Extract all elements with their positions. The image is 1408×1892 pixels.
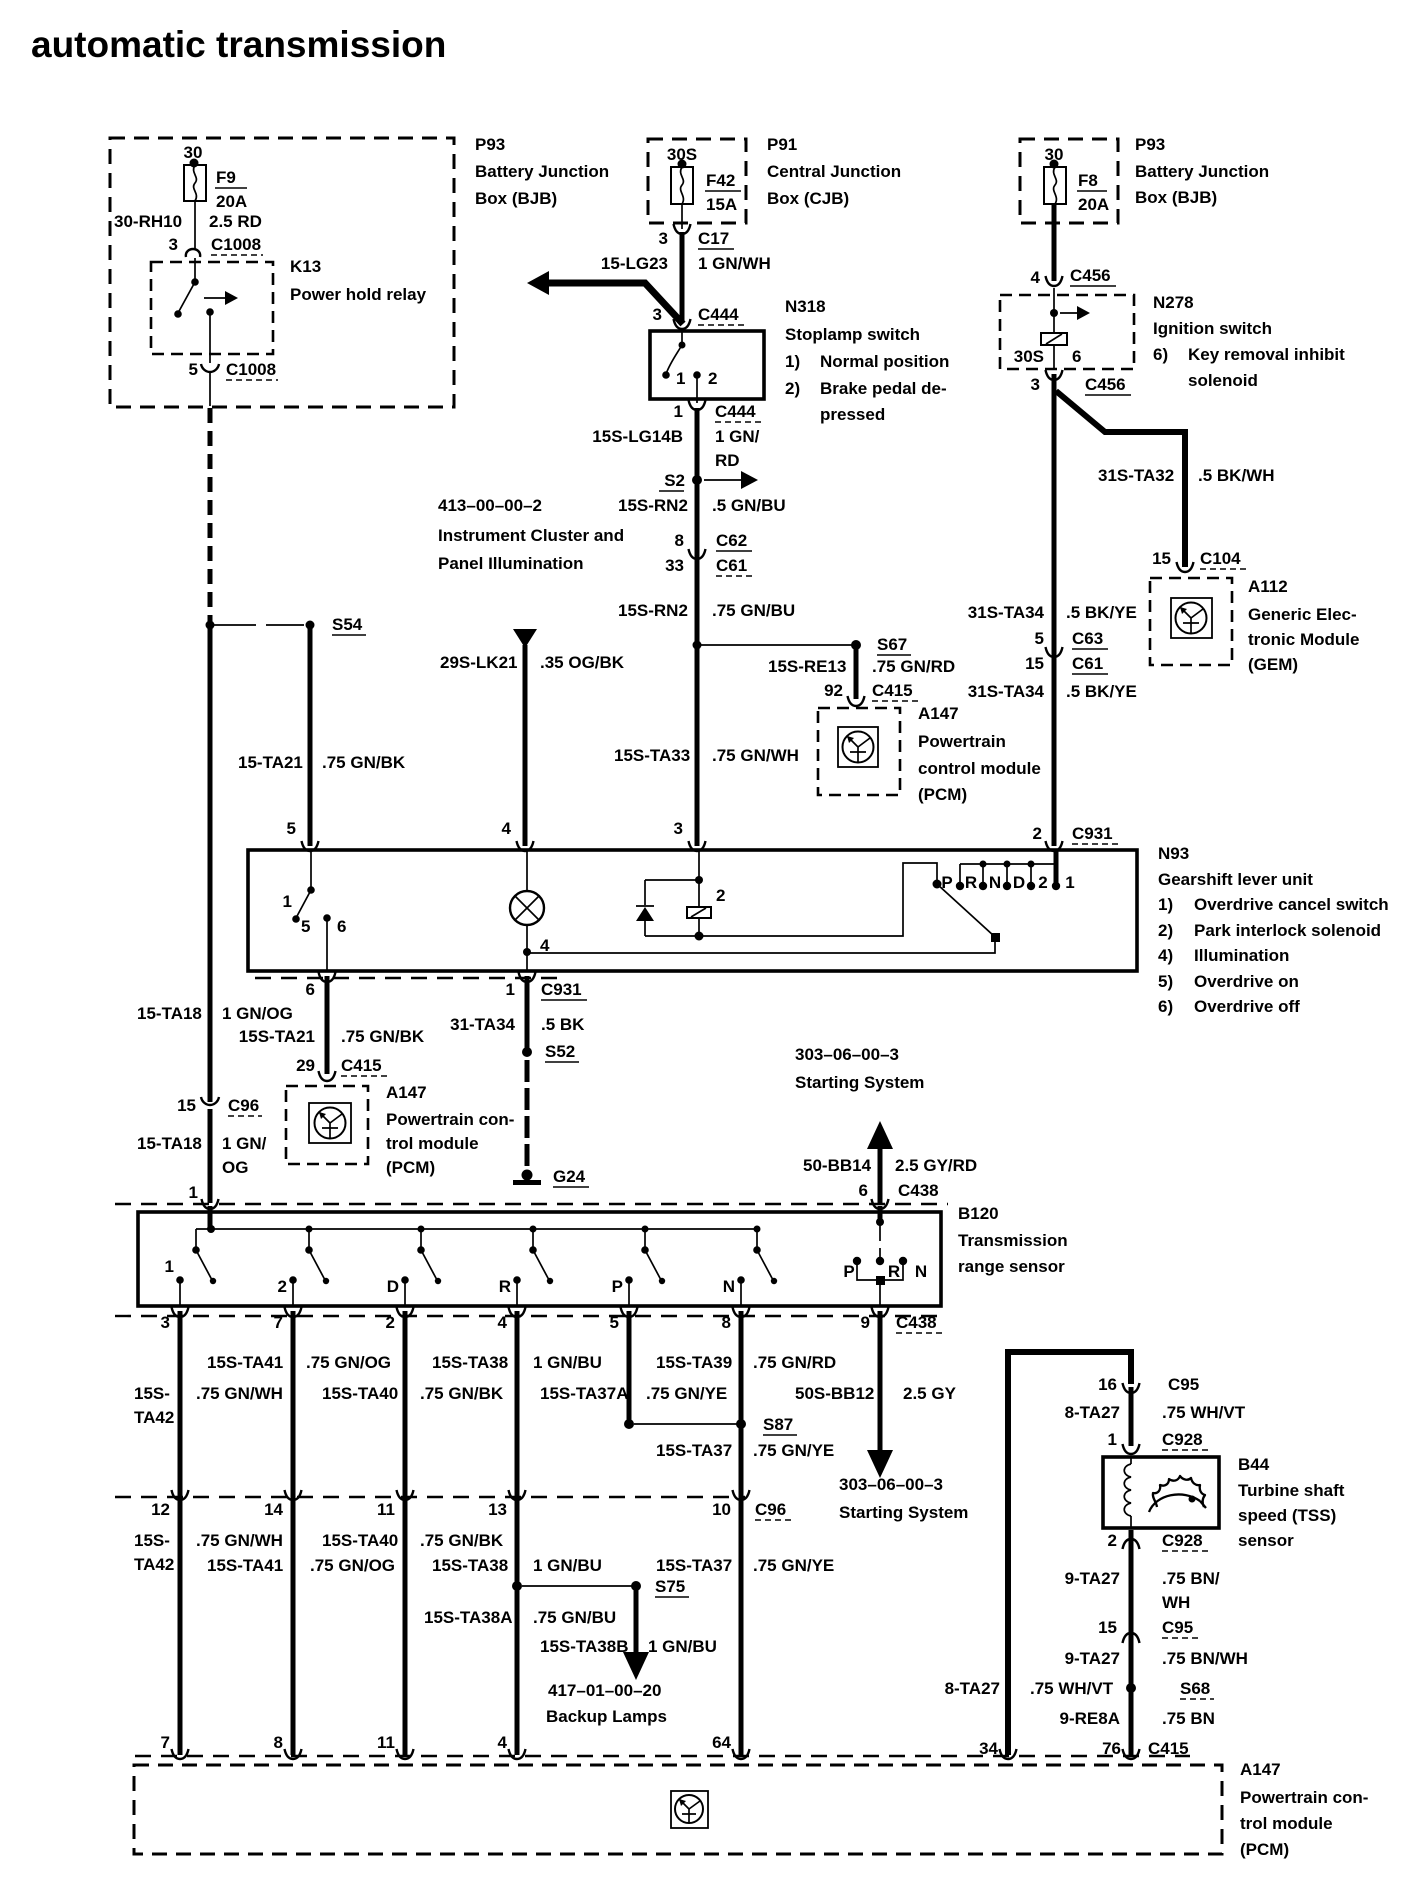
svg-text:15S-RN2: 15S-RN2 bbox=[618, 496, 688, 515]
battery junction box P93 (right, dashed) bbox=[1020, 139, 1118, 223]
svg-text:1 GN/: 1 GN/ bbox=[222, 1134, 267, 1153]
svg-text:S87: S87 bbox=[763, 1415, 793, 1434]
svg-text:F9: F9 bbox=[216, 168, 236, 187]
svg-text:D: D bbox=[387, 1277, 399, 1296]
svg-text:5: 5 bbox=[287, 819, 296, 838]
svg-text:30S: 30S bbox=[1014, 347, 1044, 366]
svg-text:413–00–00–2: 413–00–00–2 bbox=[438, 496, 542, 515]
B120 pin1 wire into bus bbox=[208, 1206, 213, 1229]
svg-text:C61: C61 bbox=[716, 556, 747, 575]
svg-text:automatic transmission: automatic transmission bbox=[31, 24, 446, 65]
wire solenoid to selector pivot bbox=[699, 863, 937, 936]
svg-text:50-BB14: 50-BB14 bbox=[803, 1156, 872, 1175]
svg-text:K13: K13 bbox=[290, 257, 321, 276]
wire fuse F9 to C1008 bbox=[194, 201, 196, 250]
relay K13 actuate arrow bbox=[204, 297, 228, 299]
relay K13 box (dashed) bbox=[151, 262, 273, 354]
svg-text:8: 8 bbox=[722, 1313, 731, 1332]
svg-text:Overdrive cancel switch: Overdrive cancel switch bbox=[1194, 895, 1389, 914]
svg-text:OG: OG bbox=[222, 1158, 248, 1177]
svg-text:F8: F8 bbox=[1078, 171, 1098, 190]
svg-text:15S-TA21: 15S-TA21 bbox=[239, 1027, 315, 1046]
svg-text:G24: G24 bbox=[553, 1167, 586, 1186]
svg-text:N: N bbox=[915, 1262, 927, 1281]
PCM A147 box (bottom, dashed) bbox=[134, 1765, 1222, 1854]
svg-text:417–01–00–20: 417–01–00–20 bbox=[548, 1681, 661, 1700]
bottom connector row C415 bbox=[135, 1755, 1190, 1757]
svg-text:S2: S2 bbox=[664, 471, 685, 490]
svg-text:15S-TA37A: 15S-TA37A bbox=[540, 1384, 629, 1403]
svg-text:16: 16 bbox=[1098, 1375, 1117, 1394]
svg-text:Generic Elec-: Generic Elec- bbox=[1248, 605, 1357, 624]
svg-text:.75 GN/BU: .75 GN/BU bbox=[712, 601, 795, 620]
svg-text:Powertrain con-: Powertrain con- bbox=[1240, 1788, 1368, 1807]
svg-text:speed (TSS): speed (TSS) bbox=[1238, 1506, 1336, 1525]
svg-text:8: 8 bbox=[274, 1733, 283, 1752]
svg-text:3: 3 bbox=[169, 235, 178, 254]
svg-text:Stoplamp switch: Stoplamp switch bbox=[785, 325, 920, 344]
svg-text:303–06–00–3: 303–06–00–3 bbox=[795, 1045, 899, 1064]
svg-text:.75 GN/WH: .75 GN/WH bbox=[196, 1531, 283, 1550]
svg-text:.75 GN/RD: .75 GN/RD bbox=[872, 657, 955, 676]
wire 15-TA21 (S54 to N93 pin5) bbox=[308, 627, 313, 846]
svg-text:15S-TA39: 15S-TA39 bbox=[656, 1353, 732, 1372]
svg-text:.75 GN/YE: .75 GN/YE bbox=[753, 1441, 834, 1460]
wire 15-TA18 solid to C96 bbox=[208, 625, 213, 1102]
svg-text:1 GN/BU: 1 GN/BU bbox=[533, 1556, 602, 1575]
dashed wire S52 to ground bbox=[525, 1060, 530, 1170]
svg-text:Box (CJB): Box (CJB) bbox=[767, 189, 849, 208]
fuse F8 20A bbox=[1044, 167, 1066, 204]
wire 50S-BB12 (pin 9) bbox=[872, 1307, 889, 1317]
selector contact bus P R N D 2 1 bbox=[960, 863, 1056, 865]
svg-text:C928: C928 bbox=[1162, 1531, 1203, 1550]
wire 15S-TA37A (pin 5) bbox=[621, 1307, 638, 1317]
svg-text:C1008: C1008 bbox=[211, 235, 261, 254]
wire S75 to backup lamps arrow bbox=[634, 1586, 639, 1652]
svg-text:Starting System: Starting System bbox=[795, 1073, 924, 1092]
svg-text:31S-TA32: 31S-TA32 bbox=[1098, 466, 1174, 485]
node S68 bbox=[1126, 1683, 1136, 1693]
svg-text:15S-TA41: 15S-TA41 bbox=[207, 1556, 283, 1575]
svg-text:6): 6) bbox=[1158, 997, 1173, 1016]
svg-text:sensor: sensor bbox=[1238, 1531, 1294, 1550]
svg-text:Box (BJB): Box (BJB) bbox=[475, 189, 557, 208]
node S52 bbox=[522, 1047, 532, 1057]
svg-text:C95: C95 bbox=[1162, 1618, 1193, 1637]
svg-text:N: N bbox=[723, 1277, 735, 1296]
svg-text:15S-RE13: 15S-RE13 bbox=[768, 657, 846, 676]
wire S67 to C415 bbox=[854, 645, 859, 699]
svg-text:Park interlock solenoid: Park interlock solenoid bbox=[1194, 921, 1381, 940]
svg-text:Battery Junction: Battery Junction bbox=[1135, 162, 1269, 181]
svg-text:.5 BK: .5 BK bbox=[541, 1015, 585, 1034]
ignition switch contact and arrow bbox=[1053, 288, 1055, 333]
svg-text:.5 BK/WH: .5 BK/WH bbox=[1198, 466, 1275, 485]
svg-text:7: 7 bbox=[161, 1733, 170, 1752]
svg-text:.75 GN/BK: .75 GN/BK bbox=[341, 1027, 425, 1046]
svg-text:C96: C96 bbox=[755, 1500, 786, 1519]
svg-text:C62: C62 bbox=[716, 531, 747, 550]
wire lamp to selector arm (pin 4 line) bbox=[527, 937, 995, 953]
svg-text:B120: B120 bbox=[958, 1204, 999, 1223]
connector line C931 below N93 bbox=[255, 977, 560, 979]
key inhibit solenoid bbox=[1041, 333, 1067, 345]
svg-text:303–06–00–3: 303–06–00–3 bbox=[839, 1475, 943, 1494]
svg-text:15-LG23: 15-LG23 bbox=[601, 254, 668, 273]
svg-text:50S-BB12: 50S-BB12 bbox=[795, 1384, 874, 1403]
svg-text:5: 5 bbox=[301, 917, 310, 936]
connector pin1 B120 bbox=[202, 1199, 219, 1209]
svg-text:3: 3 bbox=[161, 1313, 170, 1332]
svg-text:N318: N318 bbox=[785, 297, 826, 316]
svg-text:control module: control module bbox=[918, 759, 1041, 778]
svg-text:6: 6 bbox=[306, 980, 315, 999]
svg-text:34: 34 bbox=[979, 1739, 998, 1758]
starter inhibitor contacts P/R bbox=[878, 1206, 883, 1222]
svg-text:C438: C438 bbox=[896, 1313, 937, 1332]
svg-text:P: P bbox=[843, 1262, 854, 1281]
svg-text:Power hold relay: Power hold relay bbox=[290, 285, 427, 304]
svg-text:4: 4 bbox=[502, 819, 512, 838]
svg-text:1: 1 bbox=[1065, 873, 1074, 892]
svg-text:R: R bbox=[965, 873, 977, 892]
range switch P bbox=[642, 1226, 649, 1233]
svg-text:6: 6 bbox=[337, 917, 346, 936]
svg-text:31S-TA34: 31S-TA34 bbox=[968, 682, 1045, 701]
svg-text:1 GN/: 1 GN/ bbox=[715, 427, 760, 446]
svg-text:C104: C104 bbox=[1200, 549, 1241, 568]
overdrive cancel switch (1) bbox=[310, 850, 312, 890]
svg-text:64: 64 bbox=[712, 1733, 731, 1752]
wire C444 to N93 pin3 bbox=[695, 408, 700, 846]
svg-text:.75 GN/BU: .75 GN/BU bbox=[533, 1608, 616, 1627]
svg-text:Backup Lamps: Backup Lamps bbox=[546, 1707, 667, 1726]
svg-text:S54: S54 bbox=[332, 615, 363, 634]
svg-text:TA42: TA42 bbox=[134, 1555, 174, 1574]
svg-text:C456: C456 bbox=[1085, 375, 1126, 394]
wire 15S-TA40 (pin 2) bbox=[397, 1307, 414, 1317]
svg-text:3: 3 bbox=[659, 229, 668, 248]
svg-text:.35 OG/BK: .35 OG/BK bbox=[540, 653, 625, 672]
wire to C928 bbox=[1129, 1387, 1134, 1446]
svg-text:15S-TA38A: 15S-TA38A bbox=[424, 1608, 513, 1627]
connector boundary line below B120 bbox=[115, 1315, 945, 1317]
svg-text:Turbine shaft: Turbine shaft bbox=[1238, 1481, 1345, 1500]
GEM A112 box (dashed) bbox=[1150, 578, 1232, 665]
svg-text:4: 4 bbox=[498, 1313, 508, 1332]
svg-text:.75 GN/WH: .75 GN/WH bbox=[712, 746, 799, 765]
svg-text:Key removal inhibit: Key removal inhibit bbox=[1188, 345, 1345, 364]
svg-text:F42: F42 bbox=[706, 171, 735, 190]
node S54 junction bbox=[206, 621, 215, 630]
wire F42 to C17 bbox=[681, 204, 683, 229]
svg-text:15S-TA38: 15S-TA38 bbox=[432, 1353, 508, 1372]
node S75 bbox=[512, 1581, 522, 1591]
connector row C96 bbox=[115, 1496, 745, 1498]
svg-text:C1008: C1008 bbox=[226, 360, 276, 379]
svg-text:30-RH10: 30-RH10 bbox=[114, 212, 182, 231]
svg-text:Starting System: Starting System bbox=[839, 1503, 968, 1522]
svg-text:15S-TA37: 15S-TA37 bbox=[656, 1556, 732, 1575]
svg-text:8-TA27: 8-TA27 bbox=[1065, 1403, 1120, 1422]
fuse F42 15A bbox=[671, 167, 693, 204]
svg-text:.75 GN/OG: .75 GN/OG bbox=[310, 1556, 395, 1575]
svg-text:.75 GN/YE: .75 GN/YE bbox=[753, 1556, 834, 1575]
transmission range sensor B120 box bbox=[138, 1212, 941, 1306]
svg-text:.75 WH/VT: .75 WH/VT bbox=[1030, 1679, 1114, 1698]
svg-text:Brake pedal de-: Brake pedal de- bbox=[820, 379, 947, 398]
stoplamp switch N318 box bbox=[650, 331, 764, 399]
svg-text:R: R bbox=[888, 1262, 900, 1281]
ignition switch N278 box (dashed) bbox=[1000, 295, 1134, 369]
wire pin6 to C415 bbox=[325, 976, 330, 1074]
svg-text:(PCM): (PCM) bbox=[918, 785, 967, 804]
PCM A147 box (mid right, dashed) bbox=[818, 708, 900, 795]
svg-text:D: D bbox=[1013, 873, 1025, 892]
arrow branch to left (15-LG23) bbox=[545, 283, 683, 324]
svg-text:15A: 15A bbox=[706, 195, 737, 214]
svg-text:.75 BN: .75 BN bbox=[1162, 1709, 1215, 1728]
svg-text:15-TA21: 15-TA21 bbox=[238, 753, 303, 772]
svg-text:15S-TA40: 15S-TA40 bbox=[322, 1384, 398, 1403]
svg-text:15S-: 15S- bbox=[134, 1531, 170, 1550]
svg-text:8: 8 bbox=[675, 531, 684, 550]
svg-text:15: 15 bbox=[1025, 654, 1044, 673]
svg-text:C456: C456 bbox=[1070, 266, 1111, 285]
svg-text:A112: A112 bbox=[1248, 577, 1288, 596]
fuse F9 20A bbox=[184, 165, 206, 201]
wire 15S-TA41 (pin 7) bbox=[285, 1307, 302, 1317]
svg-text:S75: S75 bbox=[655, 1577, 685, 1596]
svg-text:N93: N93 bbox=[1158, 844, 1189, 863]
wire F8 to C456 bbox=[1052, 204, 1057, 281]
TSS coil bbox=[1124, 1464, 1131, 1516]
svg-text:6: 6 bbox=[1072, 347, 1081, 366]
svg-text:C415: C415 bbox=[872, 681, 913, 700]
wire pin5 to box edge bbox=[209, 373, 211, 406]
svg-text:A147: A147 bbox=[386, 1083, 427, 1102]
range switch R bbox=[530, 1226, 537, 1233]
svg-text:1: 1 bbox=[165, 1257, 174, 1276]
svg-text:P: P bbox=[941, 873, 952, 892]
svg-text:C415: C415 bbox=[341, 1056, 382, 1075]
svg-text:R: R bbox=[499, 1277, 511, 1296]
svg-text:2: 2 bbox=[278, 1277, 287, 1296]
selector arm bbox=[933, 880, 942, 889]
svg-text:.75 GN/BK: .75 GN/BK bbox=[322, 753, 406, 772]
svg-text:Powertrain: Powertrain bbox=[918, 732, 1006, 751]
svg-text:15S-TA38: 15S-TA38 bbox=[432, 1556, 508, 1575]
B120 internal bus bbox=[196, 1228, 757, 1230]
illumination lamp (4) bbox=[526, 850, 528, 891]
svg-text:2): 2) bbox=[785, 379, 800, 398]
svg-text:11: 11 bbox=[377, 1733, 395, 1752]
svg-text:31S-TA34: 31S-TA34 bbox=[968, 603, 1045, 622]
pin 2 feed into selector bbox=[1054, 850, 1059, 884]
svg-text:Central Junction: Central Junction bbox=[767, 162, 901, 181]
svg-text:1 GN/OG: 1 GN/OG bbox=[222, 1004, 293, 1023]
PCM A147 box (mid left, dashed) bbox=[286, 1086, 368, 1164]
relay K13 contact to pin 5 bbox=[206, 308, 214, 316]
wire 9-TA27 down bbox=[1129, 1530, 1134, 1755]
svg-text:92: 92 bbox=[824, 681, 843, 700]
svg-text:1: 1 bbox=[283, 892, 292, 911]
svg-text:2): 2) bbox=[1158, 921, 1173, 940]
svg-text:B44: B44 bbox=[1238, 1455, 1270, 1474]
svg-text:4): 4) bbox=[1158, 946, 1173, 965]
range switch 2 bbox=[306, 1226, 313, 1233]
arrow up 50-BB14 bbox=[878, 1146, 883, 1203]
stoplamp switch contacts bbox=[681, 331, 683, 345]
svg-text:.75 GN/OG: .75 GN/OG bbox=[306, 1353, 391, 1372]
svg-text:C96: C96 bbox=[228, 1096, 259, 1115]
svg-text:14: 14 bbox=[264, 1500, 283, 1519]
battery junction box P93 (left, dashed) bbox=[110, 138, 454, 407]
wire 8-TA27 loop (hat) bbox=[1008, 1352, 1131, 1755]
svg-text:1: 1 bbox=[1108, 1430, 1117, 1449]
svg-text:15S-TA40: 15S-TA40 bbox=[322, 1531, 398, 1550]
svg-text:31-TA34: 31-TA34 bbox=[450, 1015, 515, 1034]
svg-text:tronic Module: tronic Module bbox=[1248, 630, 1359, 649]
svg-text:Instrument Cluster and: Instrument Cluster and bbox=[438, 526, 624, 545]
svg-text:S52: S52 bbox=[545, 1042, 575, 1061]
svg-text:15S-RN2: 15S-RN2 bbox=[618, 601, 688, 620]
TSS gear icon bbox=[1153, 1476, 1205, 1507]
svg-text:20A: 20A bbox=[1078, 195, 1109, 214]
svg-text:S67: S67 bbox=[877, 635, 907, 654]
relay K13 switch bbox=[194, 258, 196, 282]
svg-text:P93: P93 bbox=[1135, 135, 1165, 154]
svg-text:A147: A147 bbox=[1240, 1760, 1281, 1779]
svg-text:Box (BJB): Box (BJB) bbox=[1135, 188, 1217, 207]
svg-text:Powertrain con-: Powertrain con- bbox=[386, 1110, 514, 1129]
svg-text:15S-TA38B: 15S-TA38B bbox=[540, 1637, 629, 1656]
svg-text:(PCM): (PCM) bbox=[1240, 1840, 1289, 1859]
svg-text:2.5 RD: 2.5 RD bbox=[209, 212, 262, 231]
svg-text:12: 12 bbox=[151, 1500, 170, 1519]
svg-text:.75 GN/BK: .75 GN/BK bbox=[420, 1531, 504, 1550]
svg-text:WH: WH bbox=[1162, 1593, 1190, 1612]
wire 15S-TA42 (pin 3) bbox=[172, 1307, 189, 1317]
svg-text:Normal position: Normal position bbox=[820, 352, 949, 371]
park interlock solenoid (2) with diode bbox=[698, 850, 700, 907]
central junction box P91 (dashed) bbox=[648, 139, 746, 223]
svg-text:11: 11 bbox=[377, 1500, 395, 1519]
svg-text:2: 2 bbox=[708, 369, 717, 388]
svg-text:9-TA27: 9-TA27 bbox=[1065, 1649, 1120, 1668]
svg-text:1): 1) bbox=[1158, 895, 1173, 914]
svg-text:Illumination: Illumination bbox=[1194, 946, 1289, 965]
svg-text:1: 1 bbox=[676, 369, 685, 388]
svg-text:4: 4 bbox=[498, 1733, 508, 1752]
svg-text:N: N bbox=[989, 873, 1001, 892]
svg-text:.5 BK/YE: .5 BK/YE bbox=[1066, 682, 1137, 701]
svg-text:29S-LK21: 29S-LK21 bbox=[440, 653, 517, 672]
svg-text:C444: C444 bbox=[715, 402, 756, 421]
svg-text:15-TA18: 15-TA18 bbox=[137, 1134, 202, 1153]
svg-text:1 GN/BU: 1 GN/BU bbox=[533, 1353, 602, 1372]
svg-text:5: 5 bbox=[1035, 629, 1044, 648]
svg-text:15: 15 bbox=[1098, 1618, 1117, 1637]
svg-text:.75 WH/VT: .75 WH/VT bbox=[1162, 1403, 1246, 1422]
svg-text:TA42: TA42 bbox=[134, 1408, 174, 1427]
svg-text:2: 2 bbox=[1033, 824, 1042, 843]
svg-text:1): 1) bbox=[785, 352, 800, 371]
range switch N bbox=[754, 1226, 761, 1233]
svg-text:Ignition switch: Ignition switch bbox=[1153, 319, 1272, 338]
gearshift lever unit N93 box bbox=[248, 850, 1137, 971]
svg-text:29: 29 bbox=[296, 1056, 315, 1075]
range switch D bbox=[418, 1226, 425, 1233]
svg-text:(PCM): (PCM) bbox=[386, 1158, 435, 1177]
wire 15S-TA38 (pin 4) bbox=[509, 1307, 526, 1317]
wire pin1 to S52 bbox=[525, 976, 530, 1050]
branch wire 31S-TA32 to GEM bbox=[1056, 391, 1185, 567]
arrow down to starting system bbox=[867, 1450, 893, 1478]
svg-text:76: 76 bbox=[1102, 1739, 1121, 1758]
svg-text:1: 1 bbox=[189, 1183, 198, 1202]
svg-text:.75 GN/YE: .75 GN/YE bbox=[646, 1384, 727, 1403]
svg-text:1 GN/BU: 1 GN/BU bbox=[648, 1637, 717, 1656]
svg-text:RD: RD bbox=[715, 451, 740, 470]
svg-text:A147: A147 bbox=[918, 704, 959, 723]
wire 15-TA18 dashed thick down bbox=[208, 408, 213, 623]
svg-text:2.5 GY/RD: 2.5 GY/RD bbox=[895, 1156, 977, 1175]
svg-text:20A: 20A bbox=[216, 192, 247, 211]
svg-text:Overdrive off: Overdrive off bbox=[1194, 997, 1300, 1016]
svg-text:.5 GN/BU: .5 GN/BU bbox=[712, 496, 786, 515]
svg-text:9: 9 bbox=[861, 1313, 870, 1332]
svg-text:N278: N278 bbox=[1153, 293, 1194, 312]
svg-text:2: 2 bbox=[716, 886, 725, 905]
svg-text:10: 10 bbox=[712, 1500, 731, 1519]
svg-text:15S-TA41: 15S-TA41 bbox=[207, 1353, 283, 1372]
svg-text:.5 BK/YE: .5 BK/YE bbox=[1066, 603, 1137, 622]
svg-text:range sensor: range sensor bbox=[958, 1257, 1065, 1276]
svg-text:C931: C931 bbox=[1072, 824, 1113, 843]
svg-text:6): 6) bbox=[1153, 345, 1168, 364]
svg-text:Panel Illumination: Panel Illumination bbox=[438, 554, 583, 573]
wire 15S-TA39 (pin 8) bbox=[733, 1307, 750, 1317]
svg-text:C61: C61 bbox=[1072, 654, 1103, 673]
svg-text:15: 15 bbox=[177, 1096, 196, 1115]
svg-text:solenoid: solenoid bbox=[1188, 371, 1258, 390]
svg-text:5: 5 bbox=[189, 360, 198, 379]
svg-text:C438: C438 bbox=[898, 1181, 939, 1200]
wire C456 down to N93 pin 2 bbox=[1052, 374, 1057, 846]
svg-text:.75 GN/WH: .75 GN/WH bbox=[196, 1384, 283, 1403]
svg-text:S68: S68 bbox=[1180, 1679, 1210, 1698]
svg-text:P93: P93 bbox=[475, 135, 505, 154]
svg-text:Overdrive on: Overdrive on bbox=[1194, 972, 1299, 991]
svg-text:.75 GN/BK: .75 GN/BK bbox=[420, 1384, 504, 1403]
svg-text:P: P bbox=[612, 1277, 623, 1296]
svg-text:Battery Junction: Battery Junction bbox=[475, 162, 609, 181]
TSS sensor B44 box bbox=[1103, 1457, 1219, 1528]
svg-text:C931: C931 bbox=[541, 980, 582, 999]
svg-text:15: 15 bbox=[1152, 549, 1171, 568]
wire C17 to C444 bbox=[680, 232, 685, 322]
svg-text:C95: C95 bbox=[1168, 1375, 1199, 1394]
svg-text:C444: C444 bbox=[698, 305, 739, 324]
svg-text:3: 3 bbox=[1031, 375, 1040, 394]
svg-text:4: 4 bbox=[1031, 268, 1041, 287]
svg-text:8-TA27: 8-TA27 bbox=[945, 1679, 1000, 1698]
svg-text:1: 1 bbox=[506, 980, 515, 999]
svg-text:trol module: trol module bbox=[386, 1134, 479, 1153]
svg-text:C415: C415 bbox=[1148, 1739, 1189, 1758]
